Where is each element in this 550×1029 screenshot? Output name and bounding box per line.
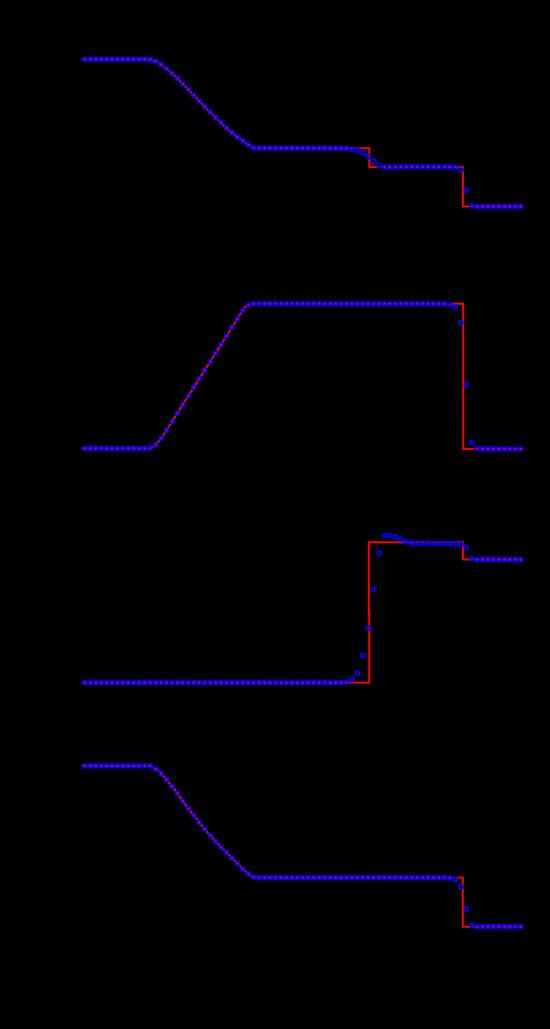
panel 1 density: exact solution red line <box>82 59 523 206</box>
panel 1 density: numerical solution markers (blue open circles) <box>83 57 523 208</box>
panel 2 velocity: numerical solution markers (blue open circles) <box>83 302 523 451</box>
panel 3 entropy: exact solution red line <box>82 542 523 682</box>
panel 4 pressure: exact solution red line <box>82 766 523 927</box>
panel 4 pressure: numerical solution markers (blue open circles) <box>83 764 523 929</box>
panel 2 velocity: exact solution red line <box>82 304 523 449</box>
panel 3 entropy: numerical solution markers (blue open circles) <box>83 533 523 684</box>
